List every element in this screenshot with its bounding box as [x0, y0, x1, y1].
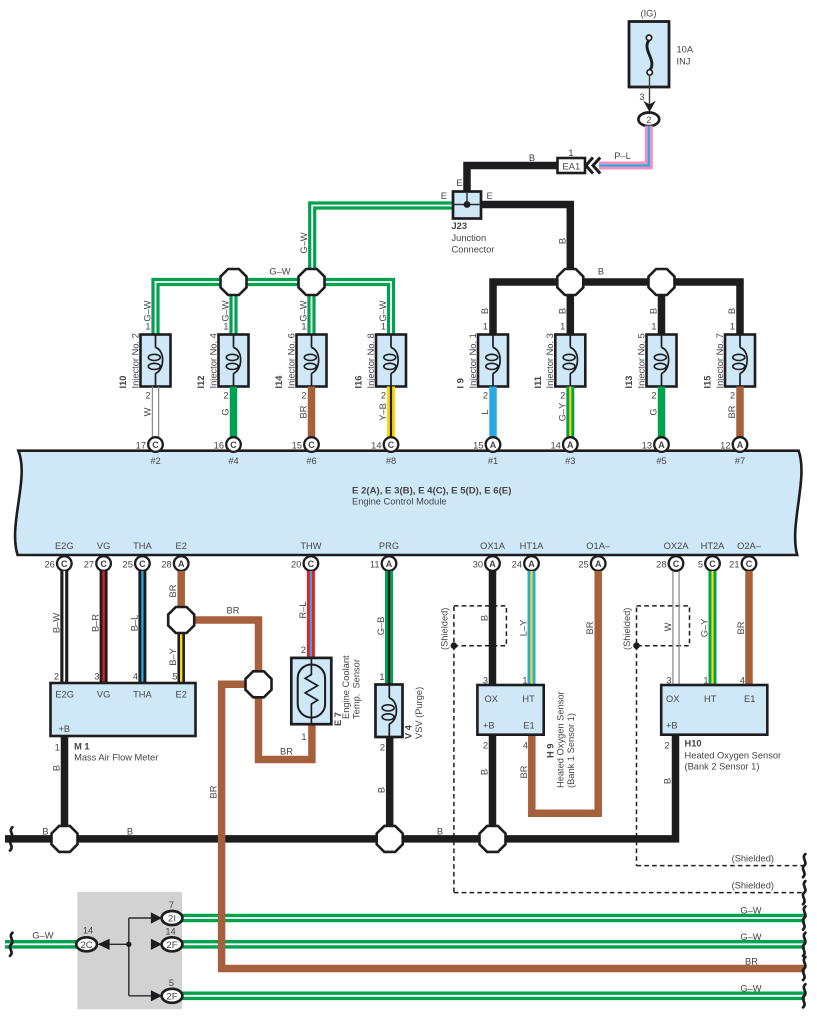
svg-text:26: 26 [44, 560, 54, 570]
ECM pin 20(C) THW [291, 541, 322, 571]
svg-text:2C: 2C [81, 940, 93, 951]
svg-text:HT: HT [704, 694, 717, 704]
ECM Engine Control Module band [15, 451, 801, 555]
wire G-W bus over left injectors [156, 267, 392, 335]
svg-text:B: B [557, 238, 567, 244]
svg-text:B: B [127, 827, 133, 837]
ECM pin 15(A) connector #1 [473, 437, 500, 466]
ECM pin 28(A) E2 [161, 541, 188, 571]
svg-text:HT2A: HT2A [701, 541, 726, 551]
wire B-W ECM E2G to M1 [51, 571, 64, 683]
svg-text:THA: THA [133, 690, 152, 700]
connector node 2 (oval) [638, 113, 659, 127]
svg-text:3: 3 [94, 672, 99, 682]
svg-text:G–W: G–W [299, 300, 309, 321]
svg-text:G–B: G–B [376, 617, 386, 636]
ECM pin 11(A) PRG [370, 541, 399, 571]
svg-text:BR: BR [280, 747, 293, 757]
ECM pin 14(A) connector #3 [550, 437, 577, 466]
svg-text:A: A [658, 440, 665, 450]
svg-text:#5: #5 [656, 456, 666, 466]
svg-text:G–W: G–W [740, 984, 761, 994]
wire R-L ECM THW to E7 [298, 571, 311, 659]
svg-text:14: 14 [371, 441, 381, 451]
svg-text:C: C [139, 559, 146, 569]
svg-text:3: 3 [639, 92, 644, 102]
svg-text:#4: #4 [228, 456, 238, 466]
svg-text:E: E [456, 178, 462, 188]
connector 2F (oval) with pin 5 [162, 978, 183, 1003]
svg-text:Engine Coolant: Engine Coolant [341, 655, 351, 719]
svg-text:PRG: PRG [379, 541, 399, 551]
svg-text:(Shielded): (Shielded) [440, 608, 450, 650]
svg-text:BR: BR [299, 405, 309, 418]
svg-text:OX: OX [485, 694, 498, 704]
svg-text:Engine Control Module: Engine Control Module [352, 497, 447, 507]
svg-text:Injector No. 4: Injector No. 4 [208, 333, 218, 388]
svg-text:1: 1 [55, 743, 60, 753]
svg-text:E 2(A), E 3(B), E 4(C), E 5(D): E 2(A), E 3(B), E 4(C), E 5(D), E 6(E) [352, 486, 511, 497]
svg-text:BR: BR [227, 606, 240, 616]
break symbol left edge ground bus [10, 827, 12, 850]
svg-text:OX: OX [666, 694, 679, 704]
svg-text:G–Y: G–Y [700, 619, 710, 638]
svg-text:I12: I12 [196, 376, 206, 389]
svg-text:Injector No. 2: Injector No. 2 [130, 333, 140, 388]
ECM pin 13(A) connector #5 [642, 437, 669, 466]
svg-text:1: 1 [651, 322, 656, 332]
svg-text:Injector No. 3: Injector No. 3 [545, 333, 555, 388]
svg-text:C: C [746, 559, 753, 569]
ECM pin 24(A) HT1A [512, 541, 545, 571]
wire G-W from left edge to connector 2C [5, 931, 80, 945]
svg-text:30: 30 [473, 560, 483, 570]
svg-text:G–W: G–W [143, 300, 153, 321]
svg-text:2: 2 [380, 743, 385, 753]
svg-text:21: 21 [729, 560, 739, 570]
svg-text:O2A–: O2A– [737, 541, 762, 551]
break symbol right edge G-W 1 [803, 906, 805, 929]
svg-text:E1: E1 [744, 694, 755, 704]
ECM pin 25(A) O1A- [578, 541, 611, 571]
break symbol right edge G-W 2 [803, 933, 805, 956]
wire G-W from junction block 2F to right edge [172, 940, 805, 949]
svg-text:12: 12 [720, 441, 730, 451]
ECM pin 15(C) connector #6 [292, 437, 319, 466]
svg-text:1: 1 [145, 322, 150, 332]
ECM pin 12(A) connector #7 [720, 437, 747, 466]
svg-text:(Bank 1 Sensor 1): (Bank 1 Sensor 1) [566, 713, 576, 788]
injector I10 Injector No. 2 [118, 300, 170, 437]
svg-text:1: 1 [568, 148, 573, 158]
svg-text:E2G: E2G [55, 541, 74, 551]
svg-text:2I: 2I [168, 914, 176, 925]
junction block (gray box) bottom left [77, 892, 182, 1010]
svg-text:P–L: P–L [614, 151, 631, 161]
svg-text:B: B [649, 308, 659, 314]
svg-text:C: C [308, 440, 315, 450]
wire BR ECM E2 to junction [168, 571, 181, 620]
svg-text:2: 2 [301, 645, 306, 655]
svg-text:E2: E2 [176, 690, 187, 700]
svg-text:M 1: M 1 [74, 742, 90, 752]
svg-text:1: 1 [301, 322, 306, 332]
svg-text:2F: 2F [166, 992, 177, 1003]
svg-text:2: 2 [730, 391, 735, 401]
svg-text:B: B [42, 827, 48, 837]
wire G-W from junction block 2I to right edge [172, 914, 805, 923]
svg-text:B–Y: B–Y [168, 648, 178, 666]
svg-text:B: B [529, 153, 535, 163]
ECM pin 25(C) THA [123, 541, 153, 571]
junction (octagon) on BR branch [246, 671, 272, 697]
wire fuse pin 3 to connector node 2, with arrow [639, 75, 655, 112]
ECM pin 28(C) OX2A [656, 541, 689, 571]
svg-text:+B: +B [483, 721, 495, 731]
svg-text:Heated Oxygen Sensor: Heated Oxygen Sensor [556, 691, 566, 788]
svg-text:H10: H10 [685, 739, 702, 749]
svg-text:2F: 2F [166, 940, 177, 951]
junction (octagon) on B bus at injector No.3 [557, 269, 583, 295]
svg-text:Injector No. 5: Injector No. 5 [636, 333, 646, 388]
svg-text:2: 2 [145, 391, 150, 401]
svg-text:Injector No. 1: Injector No. 1 [468, 333, 478, 388]
svg-text:HT: HT [522, 694, 535, 704]
svg-text:BR: BR [209, 785, 219, 798]
svg-text:27: 27 [84, 560, 94, 570]
svg-text:+B: +B [666, 721, 678, 731]
svg-text:G–W: G–W [378, 300, 388, 321]
svg-text:B–L: B–L [129, 615, 139, 632]
heated oxygen sensor H9 (bank 1 sensor 1) [477, 685, 576, 788]
ECM pin 21(C) O2A- [729, 541, 762, 571]
svg-text:1: 1 [381, 322, 386, 332]
svg-text:B: B [437, 827, 443, 837]
svg-text:BR: BR [745, 957, 758, 967]
wire B from EA1 to junction connector J23 [456, 153, 557, 192]
connector 2I (oval) with pin 7 [162, 900, 183, 925]
svg-text:I10: I10 [118, 376, 128, 389]
svg-text:5: 5 [172, 672, 177, 682]
svg-text:2: 2 [381, 391, 386, 401]
svg-text:B: B [663, 778, 673, 784]
svg-text:2: 2 [664, 741, 669, 751]
junction (octagon) ground bus at M1 [52, 826, 78, 852]
wire B from J23 right to injector bus [481, 191, 571, 282]
svg-text:5: 5 [698, 560, 703, 570]
svg-text:B: B [480, 615, 490, 621]
svg-text:B: B [52, 765, 62, 771]
wire B H9 +B to ground bus [480, 734, 493, 839]
engine coolant temp sensor E7 [291, 655, 361, 726]
ECM pin 5(C) HT2A [698, 541, 725, 571]
wire W ECM OX2A to H10 OX (shielded) [663, 571, 679, 686]
break symbol right edge G-W 3 [803, 984, 805, 1007]
svg-text:2: 2 [301, 391, 306, 401]
svg-text:15: 15 [473, 441, 483, 451]
svg-text:1: 1 [560, 322, 565, 332]
svg-text:(Shielded): (Shielded) [732, 854, 774, 864]
svg-text:4: 4 [523, 741, 528, 751]
svg-text:4: 4 [133, 672, 138, 682]
svg-text:(Shielded): (Shielded) [622, 608, 632, 650]
svg-text:HT1A: HT1A [520, 541, 545, 551]
svg-text:10A: 10A [677, 45, 694, 55]
ECM pin 26(C) E2G [44, 541, 73, 571]
svg-text:2: 2 [560, 391, 565, 401]
wire G-W from junction block 2F(5) to right edge [172, 991, 805, 1000]
svg-text:A: A [178, 559, 185, 569]
svg-text:INJ: INJ [677, 57, 691, 67]
svg-text:G–W: G–W [299, 232, 309, 253]
wire G-B ECM PRG to V4 [376, 571, 389, 685]
svg-text:2: 2 [651, 391, 656, 401]
connector 2F (oval) with pin 14 [162, 926, 183, 951]
wire BR junction to sensors branch [181, 606, 258, 685]
svg-text:(IG): (IG) [640, 9, 656, 19]
svg-text:2: 2 [646, 115, 651, 125]
connector 2C (oval) with pin 14 [76, 926, 97, 952]
junction (octagon) ground bus at H9 [480, 826, 506, 852]
svg-text:C: C [388, 440, 395, 450]
junction (octagon) on G-W bus at injector No.6 [299, 269, 325, 295]
svg-text:Y–B: Y–B [378, 403, 388, 421]
svg-text:G–W: G–W [740, 906, 761, 916]
svg-text:1: 1 [483, 322, 488, 332]
svg-text:15: 15 [292, 441, 302, 451]
junction (octagon) on B bus at injector No.5 [649, 269, 675, 295]
shield (dashed) around OX2A wire of H10, node to ground [622, 606, 805, 866]
wire G-Y ECM HT2A to H10 HT [700, 571, 713, 686]
svg-text:EA1: EA1 [562, 162, 580, 173]
svg-text:+B: +B [59, 724, 71, 734]
break symbol right edge shielded 2 [803, 881, 805, 904]
svg-text:E: E [487, 191, 493, 201]
svg-text:24: 24 [512, 560, 522, 570]
wire BR long run to right edge [209, 684, 805, 968]
junction (octagon) on G-W bus at injector No.4 [221, 269, 247, 295]
svg-text:C: C [61, 559, 68, 569]
svg-text:17: 17 [136, 441, 146, 451]
shield (dashed) around OX1A wire of H9, node to ground [440, 606, 806, 893]
ECM pin 17(C) connector #2 [136, 437, 163, 466]
svg-text:Junction: Junction [452, 233, 487, 243]
svg-text:B: B [598, 267, 604, 277]
svg-text:B: B [480, 308, 490, 314]
svg-text:A: A [737, 440, 744, 450]
svg-text:#7: #7 [735, 456, 745, 466]
svg-text:A: A [490, 440, 497, 450]
svg-text:A: A [567, 440, 574, 450]
svg-text:G: G [649, 408, 659, 415]
injector I9 Injector No. 1 [456, 308, 508, 438]
svg-text:13: 13 [642, 441, 652, 451]
svg-text:1: 1 [223, 322, 228, 332]
svg-text:#2: #2 [150, 456, 160, 466]
svg-text:E1: E1 [523, 721, 534, 731]
junction (octagon) on E2 wire [168, 607, 194, 633]
svg-text:B: B [727, 308, 737, 314]
wire B V4 pin2 to ground bus [377, 737, 390, 839]
svg-text:A: A [386, 559, 393, 569]
svg-text:C: C [152, 440, 159, 450]
injector I14 Injector No. 6 [274, 300, 326, 437]
ECM pin 14(C) connector #8 [371, 437, 398, 466]
svg-text:I15: I15 [703, 376, 713, 389]
wire B M1 +B to ground bus [52, 736, 65, 839]
svg-text:W: W [663, 622, 673, 631]
svg-text:I 9: I 9 [456, 378, 466, 388]
wire P-L from node 2 to EA1 [599, 126, 649, 166]
svg-text:28: 28 [656, 560, 666, 570]
wire B ground bus along bottom, up to H10 +B [5, 734, 676, 839]
svg-text:1: 1 [301, 732, 306, 742]
svg-text:A: A [528, 559, 535, 569]
svg-text:OX1A: OX1A [480, 541, 506, 551]
svg-text:BR: BR [168, 584, 178, 597]
svg-text:C: C [673, 559, 680, 569]
injector I13 Injector No. 5 [624, 308, 676, 438]
break symbol left edge G-W [10, 933, 12, 956]
wire B-L ECM THA to M1 [129, 571, 142, 683]
svg-text:A: A [489, 559, 496, 569]
svg-text:VG: VG [97, 541, 110, 551]
svg-text:14: 14 [83, 926, 93, 936]
wire B bus over right injectors [493, 267, 740, 335]
svg-text:W: W [143, 407, 153, 416]
svg-text:VG: VG [97, 690, 110, 700]
svg-text:B: B [557, 308, 567, 314]
svg-text:2: 2 [223, 391, 228, 401]
svg-text:G–Y: G–Y [557, 403, 567, 422]
svg-text:11: 11 [370, 560, 380, 570]
wire BR ECM O2A- to H10 E1 [736, 571, 749, 686]
svg-text:25: 25 [123, 560, 133, 570]
svg-text:THW: THW [300, 541, 321, 551]
svg-text:G–W: G–W [221, 300, 231, 321]
ECM pin 30(A) OX1A [473, 541, 506, 571]
svg-text:A: A [595, 559, 602, 569]
svg-text:E: E [441, 191, 447, 201]
svg-text:Mass Air Flow Meter: Mass Air Flow Meter [74, 753, 158, 763]
svg-text:Temp. Sensor: Temp. Sensor [352, 659, 362, 719]
svg-text:I16: I16 [354, 376, 364, 389]
svg-text:G–W: G–W [269, 267, 290, 277]
svg-text:2: 2 [54, 672, 59, 682]
wire B-Y junction to M1 E2 [168, 620, 181, 683]
junction connector J23 [452, 192, 495, 255]
wire B-R ECM VG to M1 [91, 571, 104, 683]
svg-text:Connector: Connector [452, 245, 495, 255]
svg-text:#3: #3 [565, 456, 575, 466]
svg-text:VSV (Purge): VSV (Purge) [414, 687, 424, 739]
injector I15 Injector No. 7 [703, 308, 755, 438]
svg-text:C: C [308, 559, 315, 569]
svg-text:2: 2 [483, 391, 488, 401]
svg-text:1: 1 [379, 672, 384, 682]
svg-text:BR: BR [519, 765, 529, 778]
svg-text:Injector No. 6: Injector No. 6 [286, 333, 296, 388]
break symbol right edge BR [803, 957, 805, 980]
svg-text:O1A–: O1A– [586, 541, 611, 551]
svg-text:B: B [480, 769, 490, 775]
wire BR ECM O1A- to H9 E1 (U-shape) [519, 571, 598, 813]
svg-text:Heated Oxygen Sensor: Heated Oxygen Sensor [685, 751, 782, 761]
svg-text:R–L: R–L [298, 601, 308, 618]
svg-text:C: C [100, 559, 107, 569]
fuse 10A INJ (IG) [629, 9, 694, 88]
junction block internal links with arrows [98, 912, 162, 1001]
svg-text:28: 28 [161, 560, 171, 570]
svg-text:#1: #1 [488, 456, 498, 466]
svg-text:E2: E2 [176, 541, 187, 551]
svg-text:25: 25 [578, 560, 588, 570]
ECM pin 27(C) VG [84, 541, 111, 571]
svg-text:B–W: B–W [51, 613, 61, 633]
svg-text:G–W: G–W [32, 931, 53, 941]
svg-text:2: 2 [483, 741, 488, 751]
svg-text:I11: I11 [533, 376, 543, 388]
connector EA1 with double chevron [558, 148, 601, 174]
svg-text:I13: I13 [624, 376, 634, 389]
svg-text:(Shielded): (Shielded) [732, 881, 774, 891]
svg-text:5: 5 [169, 978, 174, 988]
svg-text:BR: BR [727, 405, 737, 418]
svg-text:#6: #6 [306, 456, 316, 466]
svg-text:B: B [377, 787, 387, 793]
svg-text:Injector No. 8: Injector No. 8 [366, 333, 376, 388]
svg-text:H 9: H 9 [546, 744, 556, 758]
svg-text:20: 20 [291, 560, 301, 570]
svg-text:V 4: V 4 [404, 724, 414, 739]
injector I16 Injector No. 8 [354, 300, 406, 437]
ECM pin 16(C) connector #4 [214, 437, 241, 466]
svg-text:B–R: B–R [91, 614, 101, 632]
injector I12 Injector No. 4 [196, 300, 248, 437]
svg-text:7: 7 [169, 900, 174, 910]
wire BR junction down to E7 pin 1 [259, 684, 312, 759]
svg-text:J23: J23 [452, 221, 468, 231]
mass air flow meter M1 [51, 683, 196, 763]
wire L-Y ECM HT1A to H9 HT [519, 571, 532, 686]
svg-text:G–W: G–W [740, 932, 761, 942]
svg-text:BR: BR [736, 621, 746, 634]
svg-text:C: C [709, 559, 716, 569]
svg-text:C: C [230, 440, 237, 450]
svg-text:(Bank 2 Sensor 1): (Bank 2 Sensor 1) [685, 762, 760, 772]
svg-text:#8: #8 [386, 456, 396, 466]
svg-text:16: 16 [214, 441, 224, 451]
svg-text:THA: THA [133, 541, 152, 551]
svg-text:E2G: E2G [55, 690, 74, 700]
svg-text:14: 14 [165, 926, 175, 936]
svg-text:BR: BR [585, 621, 595, 634]
break symbol right edge shielded 1 [803, 854, 805, 877]
junction (octagon) ground bus at V4 [377, 826, 403, 852]
svg-text:Injector No. 7: Injector No. 7 [715, 333, 725, 388]
VSV purge valve V4 [376, 685, 425, 740]
svg-text:L: L [480, 409, 490, 414]
wire G-W from J23 left to injector bus [299, 191, 453, 282]
svg-text:G: G [221, 408, 231, 415]
svg-text:OX2A: OX2A [664, 541, 690, 551]
svg-text:L–Y: L–Y [519, 620, 529, 637]
heated oxygen sensor H10 (bank 2 sensor 1) [661, 685, 781, 772]
svg-text:1: 1 [730, 322, 735, 332]
svg-text:14: 14 [550, 441, 560, 451]
injector I11 Injector No. 3 [533, 308, 585, 438]
wire B ECM OX1A to H9 OX (shielded) [480, 571, 493, 686]
